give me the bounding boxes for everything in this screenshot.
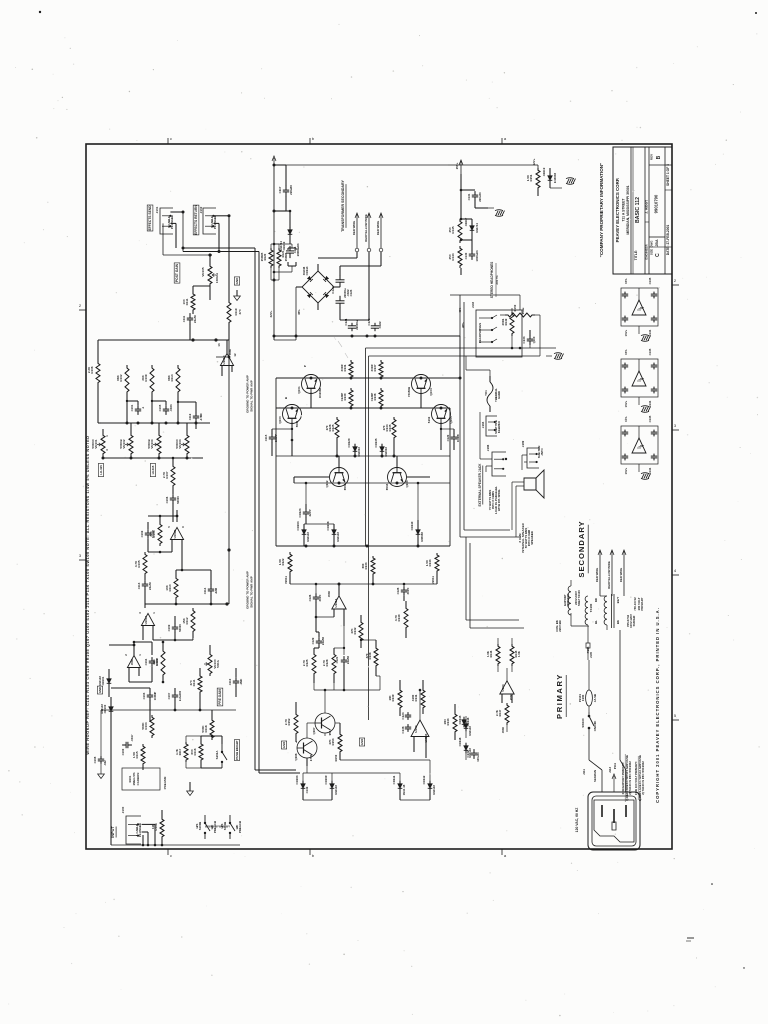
diode CR110 1N5088	[410, 521, 424, 542]
svg-text:BASIC 112: BASIC 112	[635, 197, 641, 223]
svg-text:5132: 5132	[427, 416, 431, 423]
svg-text:15K: 15K	[182, 617, 186, 623]
svg-text:CR108: CR108	[326, 521, 330, 530]
svg-text:5931: 5931	[295, 420, 299, 427]
wire stage2 node rail	[145, 595, 229, 606]
svg-text:100PF: 100PF	[274, 434, 278, 443]
resistor R150 150	[505, 304, 535, 317]
svg-text:HEADPHONES: HEADPHONES	[478, 323, 482, 343]
ground for U103 cell	[641, 473, 651, 480]
svg-text:"COMPANY PROPRIETARY INFORMATI: "COMPANY PROPRIETARY INFORMATION"	[599, 163, 604, 258]
svg-text:2.7K: 2.7K	[162, 471, 166, 478]
svg-text:C126: C126	[308, 594, 312, 601]
svg-text:C113: C113	[137, 582, 141, 589]
switch SW100	[581, 712, 597, 734]
label 100 VOLT PRIMARY	[633, 597, 644, 611]
wire C106 to U101B	[172, 503, 174, 522]
resistor R140 4.7K	[394, 606, 408, 630]
svg-text:CARBON: CARBON	[136, 773, 140, 786]
svg-text:RED WIRE: RED WIRE	[619, 568, 623, 583]
diode CR111 1N4148	[392, 775, 406, 795]
svg-text:2.7K: 2.7K	[302, 659, 306, 666]
svg-text:DATE: 27-FEB-2001: DATE: 27-FEB-2001	[666, 225, 670, 256]
ground hatch headphones	[546, 353, 564, 360]
svg-text:.22M: .22M	[214, 587, 218, 594]
capacitor C129 22u50	[311, 637, 325, 647]
routing wires U loop to speakers	[460, 537, 524, 628]
svg-text:50/60HZ: 50/60HZ	[632, 615, 636, 626]
svg-text:C110: C110	[228, 678, 232, 685]
capacitor C115 100PF	[264, 433, 278, 443]
svg-text:68K: 68K	[167, 374, 171, 380]
capacitor C120 100PF	[446, 433, 460, 443]
svg-text:500K: 500K	[201, 725, 205, 733]
filter rail 45V	[274, 335, 460, 338]
svg-text:C100: C100	[121, 748, 125, 755]
switch S101B voicing	[220, 815, 242, 839]
jack J106 external speaker	[486, 444, 507, 476]
svg-text:R31068: R31068	[318, 388, 322, 399]
svg-text:TRANSFORMER SECONDARY: TRANSFORMER SECONDARY	[341, 180, 345, 232]
svg-text:2.7K: 2.7K	[322, 659, 326, 666]
svg-text:RD: RD	[594, 598, 598, 602]
svg-text:4.7K: 4.7K	[134, 560, 138, 567]
svg-text:1N4002: 1N4002	[384, 447, 388, 457]
label EFFECTS SEND	[147, 205, 153, 231]
svg-text:PREACH: PREACH	[238, 821, 242, 833]
svg-text:56000: 56000	[176, 496, 180, 504]
svg-text:15V+: 15V+	[624, 329, 628, 336]
svg-text:GND: GND	[360, 739, 364, 745]
svg-text:CR115: CR115	[458, 715, 462, 724]
input stage feedback wires	[129, 640, 164, 683]
svg-text:22000u: 22000u	[355, 320, 359, 330]
svg-text:.0022: .0022	[346, 289, 350, 296]
svg-text:JBA: JBA	[655, 239, 659, 247]
svg-text:b: b	[312, 853, 315, 858]
svg-text:3: 3	[105, 449, 109, 451]
capacitor C121 22u50	[335, 656, 350, 666]
svg-text:PRIMARY: PRIMARY	[555, 673, 564, 719]
svg-text:SHEET 1 OF 3: SHEET 1 OF 3	[666, 164, 670, 186]
svg-text:C121: C121	[344, 318, 348, 325]
svg-text:4.7K: 4.7K	[175, 749, 179, 755]
wires resistors to top rail	[98, 385, 196, 423]
resistor R125 2.7K	[302, 652, 316, 676]
resistor R148 1.5K	[510, 644, 521, 666]
svg-text:8 OHM: 8 OHM	[518, 533, 522, 543]
svg-text:C132: C132	[466, 750, 470, 757]
capacitor C106 56000	[165, 494, 180, 504]
svg-text:PLUNGER: PLUNGER	[213, 215, 217, 229]
svg-text:1: 1	[152, 612, 156, 614]
svg-text:15V-: 15V-	[624, 349, 628, 355]
label INPUT	[111, 826, 116, 838]
sheet border frame	[86, 144, 672, 849]
resistor R122 1.5K	[278, 552, 292, 584]
svg-text:CR120: CR120	[347, 438, 351, 447]
input jack wires	[141, 810, 162, 845]
svg-text:CR109: CR109	[324, 775, 328, 784]
svg-text:SW100: SW100	[581, 718, 585, 728]
svg-text:Q105: Q105	[449, 416, 453, 424]
svg-text:50HZ TX100: 50HZ TX100	[577, 590, 581, 606]
svg-text:150u: 150u	[521, 307, 525, 314]
svg-text:10N: 10N	[443, 719, 447, 724]
diode CR118 1N4148	[458, 737, 472, 758]
svg-text:1000u63: 1000u63	[475, 250, 479, 261]
svg-text:CR118: CR118	[458, 737, 462, 746]
resistor R109 33K	[141, 365, 154, 395]
resistor R103 39K feedback	[149, 522, 162, 546]
svg-text:PLUNGER: PLUNGER	[170, 215, 174, 229]
svg-text:C122: C122	[331, 286, 335, 294]
svg-text:PREASM: PREASM	[163, 776, 167, 789]
svg-text:33R9: 33R9	[370, 364, 374, 371]
svg-text:6531: 6531	[343, 483, 347, 490]
svg-text:CR135: CR135	[374, 438, 378, 447]
resistor R132 47K	[350, 620, 363, 643]
svg-text:PUSH BRIGHT: PUSH BRIGHT	[235, 740, 239, 760]
op-amp U103 supply bypass cell	[621, 415, 658, 474]
svg-text:J105: J105	[589, 651, 593, 658]
svg-text:ENGINEER: ENGINEER	[645, 244, 649, 260]
capacitor C130 1000u	[464, 250, 479, 261]
U103 wires	[400, 680, 455, 758]
resistor R145 250	[448, 219, 462, 243]
svg-text:22u50: 22u50	[321, 637, 325, 646]
svg-text:600: 600	[190, 749, 194, 754]
svg-text:3N246: 3N246	[302, 266, 306, 275]
zener CR102 1N4744	[279, 222, 292, 251]
transformer TX100 windings	[585, 550, 624, 630]
capacitor C100	[121, 734, 134, 755]
svg-text:GARD: GARD	[497, 391, 501, 399]
svg-text:C106: C106	[165, 496, 169, 503]
wire tone stack top rail	[101, 422, 210, 425]
svg-text:J109: J109	[521, 440, 525, 447]
svg-text:CR111: CR111	[392, 775, 396, 784]
svg-text:RED WIRE: RED WIRE	[352, 221, 356, 236]
svg-text:TX100: TX100	[589, 603, 593, 612]
jack J101 effects send	[155, 206, 174, 234]
jack J104	[481, 416, 501, 436]
driver to output node wires	[314, 672, 380, 691]
wire R105 to C111b	[145, 552, 148, 580]
svg-text:10000u63: 10000u63	[296, 243, 300, 256]
svg-text:C108: C108	[93, 756, 97, 763]
label EXTERNAL SPEAKER JACK	[478, 463, 483, 507]
diode CR115 1N4148	[458, 715, 472, 736]
svg-text:45V-: 45V-	[297, 309, 301, 315]
svg-text:c: c	[170, 136, 172, 141]
svg-text:C132: C132	[305, 786, 309, 793]
svg-text:39PF: 39PF	[318, 594, 322, 601]
capacitor C104 100PF	[144, 657, 159, 667]
wire R119 into node	[227, 216, 229, 340]
diode CR109 1N4148	[324, 775, 338, 795]
svg-text:J103: J103	[471, 301, 475, 308]
resistor R116 600	[190, 742, 203, 762]
svg-text:Q100: Q100	[278, 416, 282, 424]
svg-text:20R1: 20R1	[501, 318, 505, 325]
right rail power amp	[450, 322, 465, 546]
svg-text:J. Albert: J. Albert	[645, 199, 649, 213]
input ground rail	[111, 722, 240, 846]
label PRE GAIN	[217, 688, 223, 706]
svg-text:V2011: V2011	[431, 576, 435, 584]
svg-text:PRE GAIN: PRE GAIN	[218, 689, 222, 705]
svg-text:JNTO: JNTO	[540, 447, 544, 455]
resistor R104 560K	[141, 715, 154, 738]
wire C108	[98, 710, 111, 779]
capacitor C126 39PF	[308, 593, 322, 603]
svg-text:15V-: 15V-	[624, 416, 628, 422]
svg-text:5: 5	[167, 526, 171, 528]
svg-text:R135: R135	[388, 424, 392, 431]
svg-text:1N4148: 1N4148	[100, 704, 104, 714]
transistor Q103 driver	[385, 456, 409, 490]
title block outline	[613, 147, 672, 274]
primary circuit wires	[571, 590, 624, 760]
svg-text:42V+: 42V+	[269, 310, 273, 317]
svg-text:120 VAC, 60 HZ: 120 VAC, 60 HZ	[575, 808, 579, 833]
label TRANSFORMER SECONDARY	[341, 180, 346, 232]
resistor R139 10K	[388, 688, 402, 710]
copyright notice	[655, 607, 660, 803]
potentiometer VR105 post gain	[201, 264, 219, 286]
svg-text:PEAVEY ELECTRONICS CORP.: PEAVEY ELECTRONICS CORP.	[615, 178, 620, 243]
resistor R119 470	[227, 300, 242, 325]
svg-text:10K: 10K	[388, 694, 392, 700]
rail power amp q2q3	[294, 482, 450, 485]
svg-text:CR110: CR110	[410, 521, 414, 530]
capacitor C130b	[228, 677, 243, 687]
switch S100B voicing	[195, 815, 217, 839]
resistor R133 600	[361, 556, 375, 576]
wires pots to rails	[103, 423, 187, 458]
svg-text:S101A: S101A	[215, 750, 219, 760]
headphone wires	[500, 295, 540, 356]
svg-text:56000: 56000	[178, 624, 182, 632]
svg-text:2.2u200: 2.2u200	[178, 690, 182, 701]
svg-text:.0047: .0047	[130, 734, 134, 741]
svg-text:47K: 47K	[350, 627, 354, 633]
svg-text:S100B: S100B	[198, 822, 202, 831]
svg-text:39K: 39K	[149, 530, 153, 536]
label external speaker power note	[488, 486, 501, 514]
svg-text:1: 1	[138, 654, 142, 656]
svg-text:Q103: Q103	[405, 480, 409, 487]
title block size / dwg cells	[650, 194, 662, 257]
svg-text:2: 2	[674, 278, 677, 283]
svg-text:12V+: 12V+	[532, 158, 536, 165]
svg-text:C129: C129	[311, 637, 315, 644]
svg-text:EXTERNAL SPEAKER JACK: EXTERNAL SPEAKER JACK	[478, 463, 482, 507]
driver bottom rail wires	[254, 760, 430, 800]
flag GND driver a	[281, 741, 286, 749]
svg-text:6: 6	[181, 526, 185, 528]
svg-text:U104: U104	[501, 684, 505, 691]
svg-text:2) TX100 IS P/N 70519362: 2) TX100 IS P/N 70519362	[628, 761, 632, 795]
capacitor C123 22000uF	[336, 289, 354, 308]
svg-text:5: 5	[674, 713, 677, 718]
svg-text:RED/YELLOW WIRE: RED/YELLOW WIRE	[607, 561, 611, 589]
svg-text:J100: J100	[121, 806, 125, 813]
diode CR116	[462, 717, 470, 728]
wire bus bottom to driver stage	[255, 760, 300, 773]
resistor R126 270	[325, 417, 339, 440]
speaker wires	[460, 356, 527, 537]
svg-text:33R9: 33R9	[340, 364, 344, 371]
svg-text:C107: C107	[167, 692, 171, 699]
svg-text:CEMP: CEMP	[370, 393, 374, 401]
capacitor C103 100NP	[142, 691, 157, 701]
svg-text:1N4148: 1N4148	[306, 532, 310, 542]
svg-text:220u50: 220u50	[478, 192, 482, 202]
svg-text:3: 3	[79, 553, 82, 558]
svg-text:J102: J102	[199, 206, 203, 213]
capacitor C121 22000u filter	[344, 318, 359, 331]
label 12V+	[532, 158, 536, 165]
transistor Q105	[427, 405, 453, 441]
svg-text:3: 3	[138, 612, 142, 614]
capacitor C116 10000u	[286, 243, 300, 258]
svg-text:600: 600	[361, 563, 365, 568]
svg-text:EFFECTS RETURN: EFFECTS RETURN	[194, 205, 198, 235]
left rail power amp	[275, 378, 277, 546]
rail power amp top	[276, 377, 462, 380]
svg-text:SLKMAN: SLKMAN	[593, 770, 597, 782]
svg-text:10KMA: 10KMA	[215, 272, 219, 283]
transistor Q101 2N3055	[297, 365, 322, 408]
resistor network R101 box	[122, 768, 160, 790]
wire C117	[274, 165, 286, 211]
diode CR135 1N4002	[374, 438, 388, 457]
diode CR120 1N4002	[347, 438, 361, 457]
op-amp U103	[411, 704, 429, 746]
svg-text:HI-415: HI-415	[151, 465, 155, 474]
svg-text:99010790: 99010790	[654, 194, 659, 213]
svg-text:22u50: 22u50	[346, 656, 350, 665]
svg-text:4560: 4560	[501, 726, 505, 733]
svg-text:INPUT: INPUT	[111, 826, 115, 838]
plug P105	[586, 626, 593, 660]
svg-text:U101A: U101A	[144, 616, 148, 625]
svg-text:Q106: Q106	[294, 753, 298, 760]
label 120 VAC 60 HZ	[575, 808, 579, 833]
diode CR123 22PF cap	[298, 508, 312, 518]
svg-text:4.7K: 4.7K	[394, 614, 398, 621]
secondary wires with arrows	[598, 550, 626, 596]
svg-text:1N4148: 1N4148	[468, 726, 472, 736]
diode CR101 1N4148	[98, 676, 111, 687]
node dot at U101D input	[214, 338, 217, 341]
AC inlet wires	[589, 760, 626, 792]
svg-text:33K: 33K	[141, 374, 145, 380]
svg-text:C104: C104	[144, 658, 148, 665]
svg-text:C117: C117	[278, 186, 282, 193]
svg-text:GND: GND	[98, 687, 102, 693]
zone tick marks and zone letters on frame edges	[79, 136, 679, 858]
feedback wire from output to driver	[450, 546, 456, 560]
op-amp U102 supply bypass cell	[621, 348, 658, 407]
potentiometer VR100 50KA pre gain	[204, 652, 220, 676]
wire driver bus vertical pair right	[368, 720, 370, 726]
flag GND post gain	[234, 277, 241, 301]
wire C111b down to U101A	[144, 589, 146, 608]
title block REV cell	[649, 154, 672, 165]
resistor R111b 470	[189, 674, 202, 694]
svg-text:765-10742: 765-10742	[633, 597, 637, 611]
resistor R114 68K	[167, 365, 180, 395]
wire R110 top C114 top	[176, 558, 211, 585]
svg-text:22u50: 22u50	[193, 315, 197, 323]
output rails lower continuation	[460, 347, 540, 356]
svg-text:270: 270	[325, 425, 329, 430]
capacitor C108 extra	[93, 756, 107, 766]
resistor R128 2.7K	[322, 652, 336, 676]
ground arrow input stage	[187, 782, 194, 796]
svg-text:500KB: 500KB	[119, 439, 123, 449]
AC inlet connector	[588, 792, 640, 850]
svg-text:1.5K: 1.5K	[486, 651, 490, 657]
svg-text:1N5088: 1N5088	[420, 532, 424, 542]
svg-text:1N4002: 1N4002	[357, 447, 361, 457]
svg-text:220V BR: 220V BR	[558, 620, 562, 631]
svg-text:STEREO HEADPHONES: STEREO HEADPHONES	[490, 262, 494, 299]
svg-text:12: 12	[233, 353, 237, 357]
capacitor C101	[130, 404, 145, 415]
svg-text:J106: J106	[486, 444, 490, 451]
wire effects send ring down	[163, 223, 176, 255]
resistor R144 250	[448, 246, 462, 268]
wire R117	[186, 736, 201, 768]
flag LO-CUT A	[98, 464, 103, 477]
svg-text:1.5K: 1.5K	[278, 558, 282, 565]
wire effects send tip to bus	[163, 212, 212, 255]
svg-text:15V-: 15V-	[624, 278, 628, 284]
svg-text:.0033: .0033	[169, 404, 173, 411]
svg-text:1N41 48: 1N41 48	[402, 784, 406, 795]
svg-text:1.5K: 1.5K	[425, 559, 429, 566]
svg-text:220u50: 220u50	[289, 185, 293, 195]
svg-text:68K: 68K	[116, 374, 120, 380]
bridge rectifier CR114	[302, 266, 334, 303]
wire R111 C111 junction to opamp node	[190, 286, 227, 342]
label GROUND TO POWER AMP second pair	[246, 571, 254, 609]
svg-text:DWG: DWG	[650, 241, 654, 248]
svg-text:R150: R150	[513, 304, 517, 311]
bus wires signal and ground to power amp	[182, 211, 260, 774]
resistor R152 2.7K	[284, 712, 298, 736]
potentiometer VR101 500KD low	[91, 433, 109, 456]
svg-text:.022: .022	[103, 760, 107, 766]
svg-text:4100: 4100	[411, 694, 415, 701]
wire 42V feed to regulators	[286, 165, 461, 172]
svg-text:270: 270	[382, 425, 386, 430]
svg-text:100u50: 100u50	[476, 752, 480, 762]
svg-text:C105: C105	[158, 404, 162, 411]
connector J111 labels	[582, 762, 617, 782]
svg-text:250M5: 250M5	[260, 252, 264, 261]
wire node to left rail py340	[98, 340, 193, 361]
svg-text:J101: J101	[155, 206, 159, 213]
resistor R134 270	[382, 417, 396, 440]
svg-text:TITLE:: TITLE:	[634, 250, 638, 261]
svg-text:73150B: 73150B	[407, 387, 411, 397]
svg-text:CR112: CR112	[422, 775, 426, 784]
